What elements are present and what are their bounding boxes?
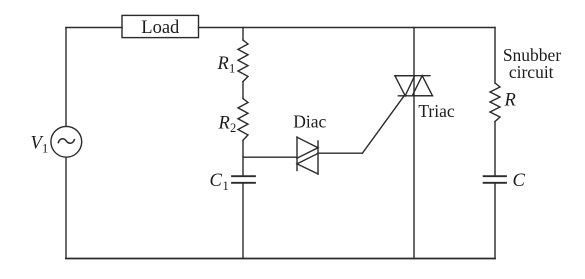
svg-text:R: R xyxy=(504,90,516,110)
wire gate diagonal to triac xyxy=(362,96,404,153)
capacitor C1 plates xyxy=(232,176,255,183)
capacitor C (snubber) plates xyxy=(484,176,506,183)
svg-text:1: 1 xyxy=(42,142,48,156)
wire R1 branch stub xyxy=(242,28,244,41)
wire top left segment xyxy=(66,27,122,29)
svg-text:R: R xyxy=(217,54,229,74)
label R snubber xyxy=(504,90,516,110)
wire left rail lower xyxy=(65,157,67,258)
label Triac xyxy=(418,101,455,121)
resistor R (snubber) xyxy=(490,83,500,122)
label Diac xyxy=(293,111,326,131)
label Snubber circuit xyxy=(503,45,562,82)
wire C1 to bottom rail xyxy=(242,184,244,259)
wire left rail upper xyxy=(65,28,67,127)
svg-text:1: 1 xyxy=(223,179,229,193)
label C snubber xyxy=(513,171,526,191)
wire right rail upper xyxy=(494,28,496,84)
label V1 xyxy=(31,134,49,156)
wire between R1 and R2 xyxy=(242,82,244,99)
source V1 sine symbol xyxy=(58,139,74,143)
wire top right of load xyxy=(199,27,496,29)
wire triac branch vertical xyxy=(413,28,415,259)
wire bottom rail xyxy=(66,258,495,260)
wire right rail mid xyxy=(494,122,496,176)
label R2 xyxy=(218,113,237,135)
diac lower triangle xyxy=(297,153,318,174)
svg-text:1: 1 xyxy=(229,62,235,76)
svg-text:Triac: Triac xyxy=(418,101,455,121)
wire R2 to C1 junction xyxy=(242,140,244,175)
triac bottom bar xyxy=(398,95,432,97)
svg-text:R: R xyxy=(218,113,230,133)
svg-text:C: C xyxy=(210,171,223,191)
diac left bar xyxy=(296,137,298,171)
label R1 xyxy=(217,54,236,76)
svg-text:2: 2 xyxy=(230,121,236,135)
wire right rail lower xyxy=(494,184,496,259)
resistor R2 xyxy=(238,99,248,141)
wire diac to gate bend xyxy=(318,152,362,154)
label Load xyxy=(141,18,180,38)
source V1 circle xyxy=(51,126,82,157)
svg-text:C: C xyxy=(513,171,526,191)
load box U-Load xyxy=(122,15,199,37)
wire junction to diac xyxy=(243,156,297,158)
triac right triangle xyxy=(412,76,432,96)
resistor R1 xyxy=(238,40,248,82)
diac upper triangle xyxy=(297,137,318,158)
svg-text:Diac: Diac xyxy=(293,111,326,131)
label C1 xyxy=(210,171,229,193)
diac right bar xyxy=(317,141,319,174)
triac left triangle xyxy=(395,76,415,96)
triac top bar xyxy=(395,75,430,77)
svg-text:Load: Load xyxy=(141,18,180,38)
svg-text:circuit: circuit xyxy=(509,62,554,82)
